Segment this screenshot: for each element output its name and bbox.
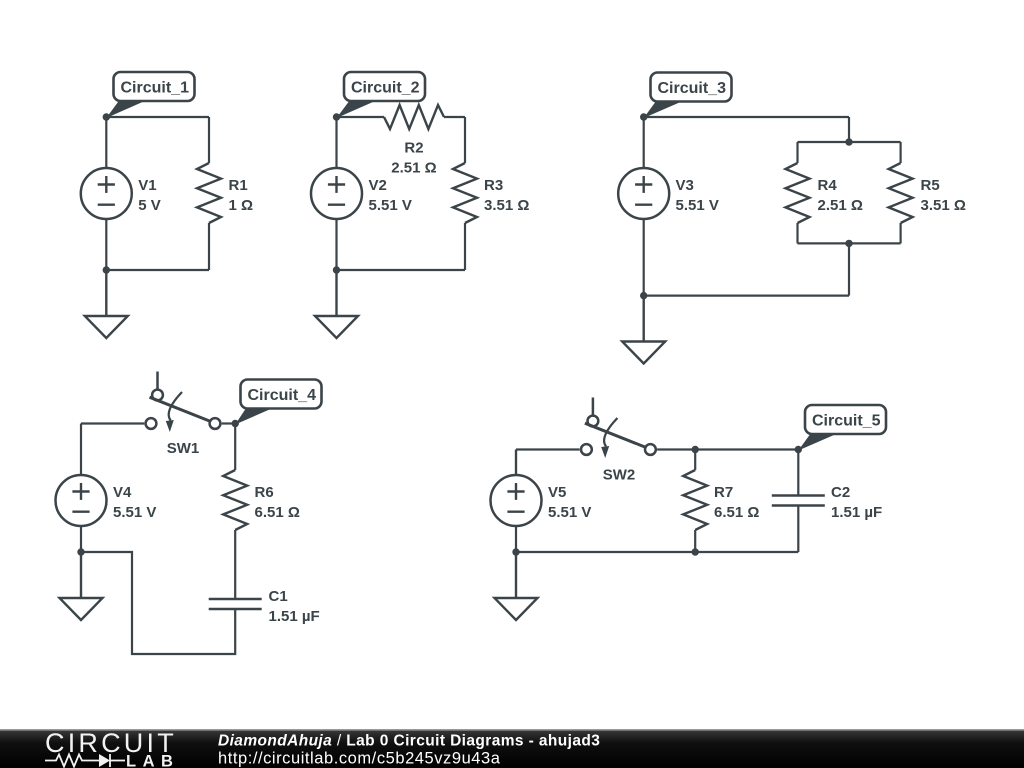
ground circuit 3: [622, 296, 665, 364]
wire: [208, 223, 210, 270]
resistor R3: [453, 163, 477, 223]
value label R5 3.51 ohm: [921, 177, 966, 214]
svg-text:R1: R1: [229, 177, 248, 194]
wire parallel bottom bar: [798, 242, 901, 244]
wire: [643, 117, 645, 168]
svg-text:R7: R7: [714, 484, 733, 501]
wire: [515, 450, 517, 476]
svg-text:5.51 V: 5.51 V: [369, 197, 412, 214]
wire bottom rail circuit 1: [106, 269, 209, 271]
svg-text:V3: V3: [676, 177, 694, 194]
svg-text:Circuit_4: Circuit_4: [248, 387, 317, 404]
ground circuit 5: [495, 552, 538, 620]
node B (Circuit_2 top): [333, 113, 340, 120]
wire top rail circuit 5: [657, 448, 798, 450]
value label R6 6.51 ohm: [255, 484, 300, 521]
svg-text:Circuit_1: Circuit_1: [121, 80, 190, 97]
value label R4 2.51 ohm: [818, 177, 863, 214]
capacitor C2: [772, 496, 825, 506]
value label C1 1.51 uF: [269, 588, 320, 625]
node parallel bottom: [845, 240, 852, 247]
wire top rail circuit 3: [644, 116, 849, 118]
wire: [105, 117, 107, 168]
voltage source V2: [311, 168, 362, 219]
wire: [80, 424, 82, 476]
value label V2 5.51 V: [369, 177, 412, 214]
footer bar: [0, 729, 1024, 768]
resistor R5: [889, 163, 913, 223]
svg-text:1.51 µF: 1.51 µF: [269, 608, 320, 625]
node parallel top: [845, 138, 852, 145]
svg-text:DiamondAhuja / Lab 0 Circuit D: DiamondAhuja / Lab 0 Circuit Diagrams - …: [218, 733, 600, 750]
wire parallel top bar: [798, 141, 901, 143]
CircuitLab logo: [45, 728, 179, 768]
value label R7 6.51 ohm: [714, 484, 759, 521]
value label R1 1 ohm: [229, 177, 254, 214]
svg-text:SW2: SW2: [603, 467, 636, 484]
node E (Circuit_5 top): [795, 446, 802, 453]
wire: [222, 422, 236, 424]
wire: [694, 530, 696, 552]
resistor R2: [384, 105, 444, 129]
svg-text:C1: C1: [269, 588, 288, 605]
svg-text:R3: R3: [484, 177, 503, 194]
svg-text:R6: R6: [255, 484, 274, 501]
node circuit 1 bottom: [103, 266, 110, 273]
wire: [105, 219, 107, 270]
wire: [797, 506, 799, 553]
wire: [515, 526, 517, 552]
ground circuit 4: [60, 552, 103, 620]
ground circuit 1: [85, 270, 128, 338]
voltage source V1: [81, 168, 132, 219]
svg-text:V4: V4: [113, 484, 132, 501]
svg-text:2.51 Ω: 2.51 Ω: [818, 197, 863, 214]
value label R3 3.51 ohm: [484, 177, 529, 214]
svg-text:2.51 Ω: 2.51 Ω: [391, 160, 436, 177]
capacitor C1: [209, 599, 262, 609]
svg-text:1.51 µF: 1.51 µF: [831, 504, 882, 521]
wire: [464, 223, 466, 270]
wire: [444, 116, 465, 118]
wire: [80, 526, 82, 552]
label Circuit_1: [106, 72, 194, 118]
svg-text:R4: R4: [818, 177, 838, 194]
svg-text:V2: V2: [369, 177, 387, 194]
svg-text:Circuit_2: Circuit_2: [351, 80, 420, 97]
svg-text:LAB: LAB: [126, 753, 179, 768]
value label V4 5.51 V: [113, 484, 156, 521]
node R7 bottom: [692, 548, 699, 555]
svg-text:R5: R5: [921, 177, 940, 194]
wire: [643, 219, 645, 296]
wire: [335, 219, 337, 270]
value label R2 2.51 ohm: [391, 140, 436, 177]
wire circuit 4 return path: [81, 552, 235, 654]
switch SW2: [581, 398, 656, 459]
wire: [694, 450, 696, 471]
svg-text:6.51 Ω: 6.51 Ω: [714, 504, 759, 521]
value label V1 5 V: [138, 177, 161, 214]
node A (Circuit_1 top): [103, 113, 110, 120]
node circuit 3 bottom: [640, 292, 647, 299]
svg-text:C2: C2: [831, 484, 850, 501]
node circuit 2 bottom: [333, 266, 340, 273]
svg-text:Circuit_5: Circuit_5: [812, 413, 881, 430]
node circuit 4 bottom: [77, 548, 84, 555]
label Circuit_4: [235, 380, 321, 425]
svg-text:5.51 V: 5.51 V: [113, 504, 156, 521]
wire: [464, 117, 466, 163]
wire: [899, 142, 901, 163]
label Circuit_3: [644, 73, 732, 119]
wire: [81, 422, 144, 424]
wire: [208, 117, 210, 163]
svg-text:5.51 V: 5.51 V: [548, 504, 591, 521]
resistor R7: [683, 470, 707, 530]
svg-text:Circuit_3: Circuit_3: [658, 80, 727, 97]
wire: [234, 530, 236, 599]
wire: [797, 450, 799, 496]
voltage source V3: [618, 168, 669, 219]
svg-text:3.51 Ω: 3.51 Ω: [921, 197, 966, 214]
wire: [234, 424, 236, 471]
node R7 top: [692, 446, 699, 453]
svg-text:SW1: SW1: [167, 440, 200, 457]
voltage source V4: [56, 475, 107, 526]
node C (Circuit_3 top): [640, 113, 647, 120]
svg-text:1 Ω: 1 Ω: [229, 197, 254, 214]
wire: [796, 142, 798, 163]
wire bottom rail circuit 5: [516, 551, 798, 553]
svg-text:5 V: 5 V: [138, 197, 161, 214]
svg-text:6.51 Ω: 6.51 Ω: [255, 504, 300, 521]
value label V5 5.51 V: [548, 484, 591, 521]
resistor R1: [197, 163, 221, 223]
svg-text:3.51 Ω: 3.51 Ω: [484, 197, 529, 214]
value label V3 5.51 V: [676, 177, 719, 214]
svg-text:http://circuitlab.com/c5b245vz: http://circuitlab.com/c5b245vz9u43a: [218, 750, 501, 768]
wire: [848, 243, 850, 295]
wire: [335, 117, 337, 168]
wire: [848, 117, 850, 142]
wire: [796, 223, 798, 243]
value label C2 1.51 uF: [831, 484, 882, 521]
wire bottom rail circuit 2: [337, 269, 466, 271]
resistor R6: [223, 470, 247, 530]
svg-text:5.51 V: 5.51 V: [676, 197, 719, 214]
ground circuit 2: [315, 270, 358, 338]
wire: [337, 116, 385, 118]
resistor R4: [786, 163, 810, 223]
wire: [899, 223, 901, 243]
node D (Circuit_4 top): [232, 420, 239, 427]
svg-text:V1: V1: [138, 177, 156, 194]
label Circuit_2: [337, 72, 426, 118]
switch SW1: [146, 372, 221, 433]
wire bottom rail circuit 3: [644, 295, 849, 297]
node circuit 5 bottom: [512, 548, 519, 555]
wire: [515, 450, 517, 476]
wire: [516, 448, 580, 450]
label Circuit_5: [798, 405, 886, 451]
wire top rail circuit 1: [106, 116, 209, 118]
voltage source V5: [491, 475, 542, 526]
svg-text:R2: R2: [404, 140, 423, 157]
svg-text:V5: V5: [548, 484, 566, 501]
